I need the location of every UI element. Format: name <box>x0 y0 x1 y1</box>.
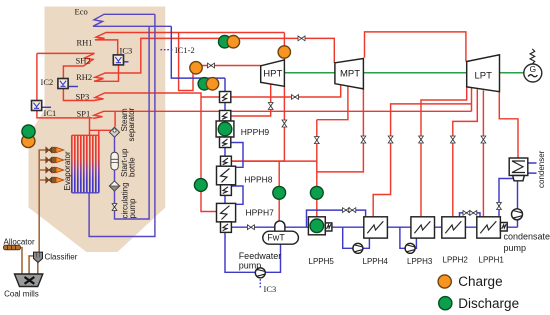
svg-text:separator: separator <box>127 107 136 141</box>
svg-text:Evaporator: Evaporator <box>63 151 72 190</box>
svg-text:SP1: SP1 <box>77 109 91 119</box>
svg-text:LPPH2: LPPH2 <box>443 256 469 265</box>
svg-text:RH2: RH2 <box>76 72 92 82</box>
svg-text:Coal mills: Coal mills <box>4 290 39 299</box>
svg-text:SP3: SP3 <box>76 92 90 102</box>
svg-text:IC3: IC3 <box>120 46 133 56</box>
svg-text:RH1: RH1 <box>77 38 93 48</box>
svg-text:HPPH9: HPPH9 <box>241 127 270 137</box>
svg-text:MPT: MPT <box>340 69 360 80</box>
svg-text:FwT: FwT <box>267 233 285 243</box>
svg-text:bottle: bottle <box>128 157 137 177</box>
svg-text:LPT: LPT <box>475 71 493 82</box>
svg-text:Feedwater: Feedwater <box>239 251 282 261</box>
svg-text:LPPH4: LPPH4 <box>363 257 389 266</box>
svg-text:IC1-2: IC1-2 <box>175 45 195 55</box>
svg-text:pump: pump <box>239 260 262 270</box>
svg-text:G: G <box>529 64 536 74</box>
svg-text:Discharge: Discharge <box>458 296 519 311</box>
svg-text:pump: pump <box>504 243 527 253</box>
svg-text:LPPH3: LPPH3 <box>407 257 433 266</box>
svg-text:HPPH8: HPPH8 <box>244 175 273 185</box>
svg-text:HPT: HPT <box>263 69 282 80</box>
svg-text:IC3: IC3 <box>264 284 277 294</box>
svg-text:condensate: condensate <box>504 232 550 242</box>
svg-text:LPPH1: LPPH1 <box>479 256 505 265</box>
svg-text:Allocator: Allocator <box>4 237 35 246</box>
svg-text:pump: pump <box>128 198 137 219</box>
svg-text:IC2: IC2 <box>41 77 54 87</box>
svg-text:SH2: SH2 <box>76 56 91 66</box>
svg-text:Eco: Eco <box>75 7 88 17</box>
svg-text:condenser: condenser <box>537 150 546 188</box>
svg-text:IC1: IC1 <box>44 108 57 118</box>
svg-text:HPPH7: HPPH7 <box>246 208 275 218</box>
svg-text:Classifier: Classifier <box>45 252 78 261</box>
svg-text:Charge: Charge <box>458 274 502 289</box>
svg-text:LPPH5: LPPH5 <box>309 257 335 266</box>
